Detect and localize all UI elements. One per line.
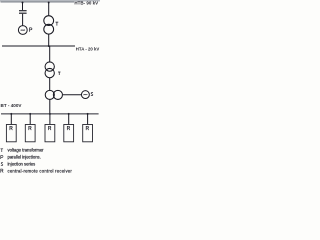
wire series transformer to BT bus [49,100,51,114]
node feeder 2 [29,113,31,115]
bus BT 400V [1,113,99,115]
legend row R [1,169,3,173]
wire feeder 1 [10,114,12,125]
receiver R3 [45,125,55,142]
svg-text:HTA - 20 kV: HTA - 20 kV [76,47,100,52]
transformer T2 (HTA/BT) [45,62,54,71]
wire HTA to transformer T2 [49,46,51,62]
receiver R2 [25,125,35,142]
legend row S [1,163,3,166]
wire series transformer to source S [63,94,81,96]
svg-text:parallel injections.: parallel injections. [8,155,41,160]
svg-text:injection series: injection series [8,162,36,167]
svg-text:voltage transformer: voltage transformer [8,148,45,153]
bus HTA 20 kV [2,45,75,47]
svg-text:BT - 400V: BT - 400V [1,103,23,108]
wire feeder 3 [49,114,51,125]
receiver R1 [6,125,16,142]
capacitor C (coupling) [19,10,27,11]
receiver R5 [83,125,93,142]
wire T2 to series transformer [49,78,51,90]
label S [91,93,93,96]
wire feeder 4 [68,114,70,125]
svg-text:HTB- 90 kV: HTB- 90 kV [74,1,98,6]
source P (AC generator, parallel injection) [18,26,27,35]
node feeder 3 [49,113,51,115]
top scan band [0,0,100,2]
wire T1 to HTA bus [48,34,50,46]
label T2 [58,72,61,75]
label P [30,28,32,32]
legend row T [1,149,4,152]
receiver R4 [64,125,74,142]
wire feeder 2 [29,114,31,125]
wire feeder 5 [87,114,89,125]
wire capacitor to source P [22,14,24,26]
node feeder 4 [68,113,70,115]
node feeder 5 [87,113,89,115]
node feeder 1 [10,113,12,115]
wire bus to transformer T1 [48,2,50,15]
wire bus to capacitor [22,2,24,10]
background [0,0,100,179]
bus HTB 90 kV [1,1,75,2]
series injection transformer [45,90,54,99]
label T1 [56,22,59,26]
node T1 tap [48,2,50,4]
transformer T1 (HTB/HTA) [44,16,54,26]
svg-text:central-remote control receive: central-remote control receiver [8,169,73,174]
node P-branch tap [22,2,24,4]
source S (AC generator, series injection) [81,91,89,99]
node T1/HTA junction [48,45,50,47]
legend row P [1,156,3,159]
